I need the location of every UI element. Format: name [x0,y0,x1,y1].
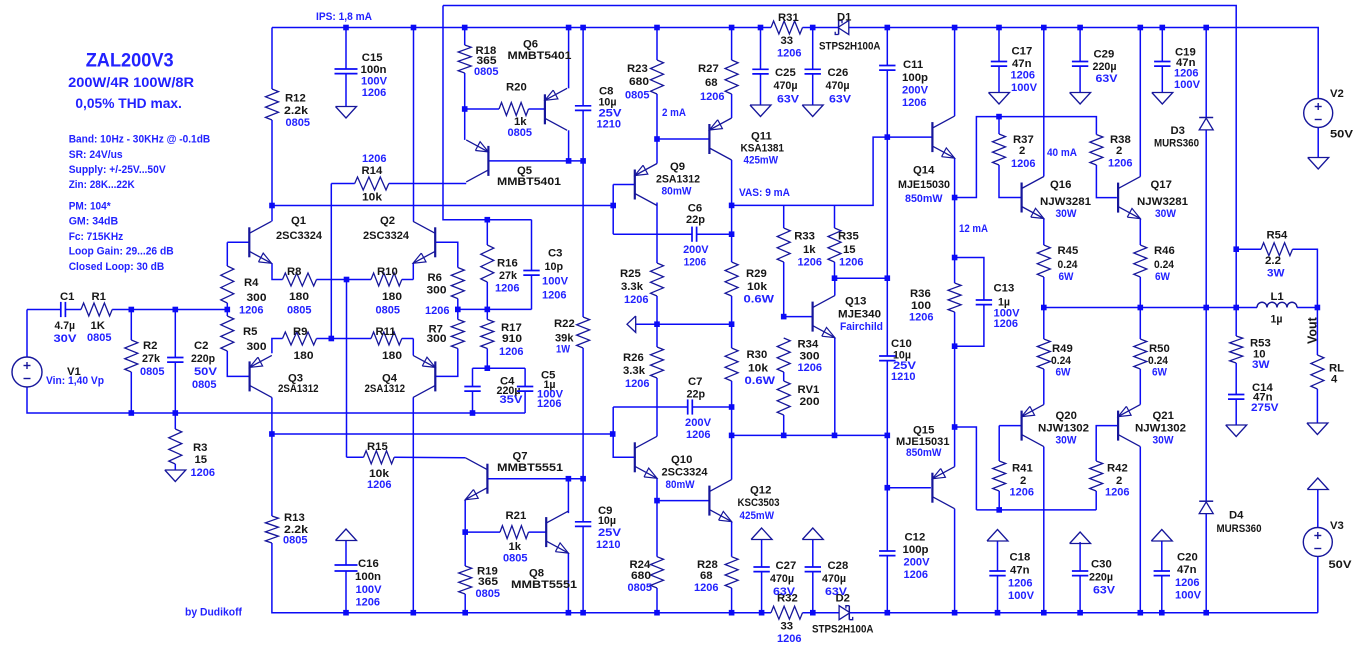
svg-text:1206: 1206 [798,362,823,374]
wire [657,478,709,500]
wire [784,316,813,318]
junction [654,610,660,616]
svg-text:910: 910 [502,333,522,345]
transistor Q6 [508,39,572,131]
wire [457,309,459,319]
svg-text:1k: 1k [803,244,816,256]
wire [886,28,888,66]
svg-text:33: 33 [781,621,794,633]
svg-text:Q12: Q12 [750,485,771,497]
resistor R3 [169,429,215,479]
svg-text:100V: 100V [1175,590,1201,602]
svg-text:Q13: Q13 [845,296,866,308]
ground [336,529,357,541]
resistor R23 [625,60,664,102]
resistor R22 [554,317,590,356]
svg-text:10µ: 10µ [598,515,616,527]
wire [524,391,526,413]
svg-text:SR: 24V/us: SR: 24V/us [69,149,123,161]
svg-text:2: 2 [1116,475,1122,487]
capacitor C20 [1154,552,1202,602]
svg-text:10k: 10k [362,192,383,204]
wire [999,165,1022,198]
wire [345,28,347,70]
resistor R54 [1261,230,1293,280]
svg-text:0805: 0805 [628,582,653,594]
svg-text:C6: C6 [688,202,702,214]
ground [1152,93,1173,105]
wire [731,205,733,262]
ground [1226,425,1247,437]
wire [1205,28,1207,118]
svg-text:0.24: 0.24 [1154,259,1175,271]
junction [885,134,891,140]
resistor R32 [771,593,803,646]
ground [1308,158,1329,170]
junction [329,336,335,342]
svg-text:180: 180 [294,350,314,362]
svg-text:1206: 1206 [902,97,927,109]
svg-text:0805: 0805 [140,366,165,378]
wire [486,309,488,319]
junction [654,25,660,31]
wire [998,117,1000,134]
junction [269,431,275,437]
wire [457,299,459,310]
svg-text:R3: R3 [193,442,207,454]
svg-text:by Dudikoff: by Dudikoff [185,607,242,619]
resistor R12 [266,89,311,129]
junction [654,498,660,504]
svg-text:NJW3281: NJW3281 [1040,196,1091,208]
svg-text:22p: 22p [686,214,705,226]
svg-text:MMBT5551: MMBT5551 [511,579,577,591]
wire [486,349,488,369]
svg-text:1206: 1206 [1108,158,1133,170]
wire [999,425,1021,427]
svg-text:C18: C18 [1010,552,1031,564]
svg-text:63V: 63V [829,94,851,106]
svg-text:D3: D3 [1171,125,1185,137]
wire [345,541,347,565]
resistor R20 [499,82,532,140]
svg-text:Q16: Q16 [1050,179,1071,191]
junction [654,321,660,327]
svg-text:220µ: 220µ [1089,572,1113,584]
svg-text:2SA1312: 2SA1312 [656,173,700,185]
svg-text:0805: 0805 [286,117,311,129]
svg-text:ZAL200V3: ZAL200V3 [86,50,174,72]
svg-text:R14: R14 [362,165,383,177]
svg-text:63V: 63V [1096,73,1118,85]
wire [472,391,474,413]
wire [465,531,500,533]
svg-text:2SC3324: 2SC3324 [662,467,709,479]
svg-text:2SC3324: 2SC3324 [276,230,323,242]
svg-text:180: 180 [382,350,402,362]
svg-text:50V: 50V [194,366,218,378]
wire [697,233,732,235]
svg-text:100p: 100p [903,544,929,556]
svg-text:C25: C25 [775,67,796,79]
wire [1139,369,1141,405]
svg-text:GM: 34dB: GM: 34dB [69,216,119,228]
svg-text:1206: 1206 [362,153,387,165]
svg-text:Q17: Q17 [1151,179,1172,191]
svg-text:680: 680 [631,570,651,582]
junction [952,255,958,261]
junction [1041,305,1047,311]
wire [1235,363,1237,395]
svg-text:C17: C17 [1012,46,1033,58]
wire [1043,308,1045,340]
svg-text:50V: 50V [1330,129,1354,141]
wire [1297,307,1317,309]
svg-text:Q8: Q8 [529,568,544,580]
wire [812,540,814,567]
svg-text:220p: 220p [191,353,215,365]
svg-text:300: 300 [247,341,267,353]
wire [1161,28,1163,62]
svg-text:0805: 0805 [192,379,217,391]
wire [955,117,1097,198]
svg-text:25V: 25V [598,527,622,539]
resistor R13 [265,512,308,547]
svg-text:1206: 1206 [686,429,711,441]
wire [955,258,984,301]
wire [998,28,1000,62]
wire [271,397,273,434]
junction [885,25,891,31]
transistor Q17 [1118,177,1188,220]
junction [759,610,765,616]
svg-text:R36: R36 [910,288,931,300]
svg-text:R50: R50 [1149,343,1170,355]
wire [443,6,1236,308]
ground [165,470,186,482]
wire [760,74,762,105]
svg-text:C29: C29 [1094,49,1115,61]
ground [336,107,357,119]
svg-text:MJE15030: MJE15030 [898,179,950,191]
wire [465,108,499,110]
wire [174,310,176,358]
wire [472,368,474,386]
wire [130,310,132,341]
transistor Q21 [1118,405,1186,447]
ground [750,105,771,117]
junction [952,424,958,430]
wire [998,491,1000,510]
resistor R14 [355,153,389,204]
svg-text:2SC3324: 2SC3324 [363,230,410,242]
svg-text:0805: 0805 [476,588,501,600]
junction [996,114,1002,120]
ground [1070,93,1091,105]
voltage source V2 [1304,88,1354,141]
wire [998,66,1000,92]
svg-text:R26: R26 [623,352,644,364]
junction [832,275,838,281]
junction [729,231,735,237]
junction [729,433,735,439]
wire [464,500,466,532]
wire [524,368,526,386]
svg-text:63V: 63V [1093,585,1115,597]
svg-text:R20: R20 [506,82,527,94]
wire [849,28,1318,99]
svg-text:100V: 100V [1008,590,1034,602]
svg-text:470µ: 470µ [826,80,850,92]
svg-text:0.24: 0.24 [1148,355,1169,367]
wire [402,279,414,281]
wire [272,433,613,435]
wire [413,28,415,222]
wire [954,427,956,467]
wire [954,312,956,427]
wire [1205,130,1207,501]
svg-text:2: 2 [1020,475,1026,487]
junction [781,314,787,320]
resistor R34 [777,338,822,374]
svg-text:1K: 1K [91,320,106,332]
wire [1043,277,1045,308]
wire [1043,447,1045,613]
junction [810,610,816,616]
svg-text:0805: 0805 [87,332,112,344]
wire [1235,399,1237,425]
svg-text:R42: R42 [1107,463,1128,475]
svg-text:0.6W: 0.6W [745,375,776,387]
svg-text:1206: 1206 [1175,577,1200,589]
transistor Q8 [511,511,577,591]
svg-text:R31: R31 [778,12,799,24]
svg-text:6W: 6W [1059,271,1074,283]
junction [952,25,958,31]
svg-text:100p: 100p [902,72,928,84]
svg-text:4: 4 [1331,374,1338,386]
wire [331,183,354,185]
resistor R4 [221,266,267,317]
svg-text:NJW3281: NJW3281 [1137,196,1188,208]
wire [1096,165,1117,198]
svg-text:1206: 1206 [499,346,524,358]
wire [227,241,249,243]
wire [345,74,347,107]
svg-text:15: 15 [843,244,856,256]
resistor R49 [1037,339,1072,379]
svg-text:Q6: Q6 [523,39,538,51]
resistor R11 [371,326,402,362]
wire [568,28,570,89]
svg-text:Fairchild: Fairchild [840,321,883,333]
ground [802,105,823,117]
junction [580,25,586,31]
svg-text:0.24: 0.24 [1051,355,1072,367]
wire [65,309,81,311]
wire [783,262,785,317]
wire [955,427,977,510]
wire [1079,28,1081,62]
svg-text:850mW: 850mW [905,193,943,205]
junction [1159,610,1165,616]
svg-text:KSC3503: KSC3503 [738,497,780,509]
capacitor C10 [879,338,916,383]
wire [1139,219,1141,245]
capacitor C26 [805,67,852,106]
junction [885,485,891,491]
svg-text:1206: 1206 [1011,158,1036,170]
wire [272,339,283,354]
svg-text:R1: R1 [92,291,106,303]
svg-text:R35: R35 [838,231,859,243]
svg-text:NJW1302: NJW1302 [1038,423,1089,435]
resistor R19 [459,566,500,601]
svg-text:1206: 1206 [537,398,562,410]
svg-text:1206: 1206 [1174,68,1199,80]
wire [412,397,414,612]
resistor R16 [481,245,520,295]
svg-text:C13: C13 [994,283,1015,295]
svg-text:68: 68 [705,77,718,89]
wire [954,509,956,613]
svg-text:R34: R34 [798,339,819,351]
wire [488,160,583,162]
svg-text:10p: 10p [545,261,564,273]
svg-text:35V: 35V [500,394,524,406]
junction [455,307,461,313]
svg-text:R15: R15 [367,441,388,453]
svg-text:47n: 47n [1177,564,1197,576]
svg-text:Q11: Q11 [751,131,772,143]
svg-text:C26: C26 [828,67,849,79]
junction [758,25,764,31]
svg-text:Q1: Q1 [291,215,306,227]
svg-text:2: 2 [1019,145,1025,157]
wire [761,540,763,567]
wire [1079,66,1081,92]
wire [402,338,414,340]
svg-text:MMBT5401: MMBT5401 [497,176,561,188]
svg-text:30V: 30V [54,333,78,345]
svg-text:470µ: 470µ [770,573,794,585]
wire [954,198,956,284]
svg-text:0,05% THD max.: 0,05% THD max. [75,95,181,111]
svg-text:L1: L1 [1271,291,1284,303]
wire [458,308,532,310]
svg-text:200V: 200V [685,417,711,429]
svg-text:425mW: 425mW [744,155,779,167]
svg-text:NJW1302: NJW1302 [1135,423,1186,435]
wire [1317,490,1319,528]
junction [729,404,735,410]
wire [732,137,933,205]
svg-text:C16: C16 [358,558,379,570]
svg-text:30W: 30W [1155,208,1176,220]
svg-text:R27: R27 [698,63,719,75]
wire [529,531,547,533]
resistor R10 [371,266,402,317]
wire [1236,248,1261,250]
svg-text:680: 680 [629,76,649,88]
wire [27,387,473,414]
svg-text:1206: 1206 [1008,578,1033,590]
svg-text:2SA1312: 2SA1312 [365,383,406,395]
wire [1293,249,1318,307]
svg-text:100V: 100V [361,76,387,88]
wire [812,28,814,70]
svg-text:1206: 1206 [1011,70,1036,82]
wire [731,296,733,348]
svg-text:300: 300 [800,351,820,363]
wire [174,413,176,429]
svg-text:300: 300 [427,333,447,345]
svg-text:MJE340: MJE340 [838,309,881,321]
wire [582,348,584,479]
resistor R36 [909,283,961,324]
junction [654,136,660,142]
capacitor C11 [879,59,928,109]
wire [783,415,785,435]
svg-text:R4: R4 [244,277,259,289]
svg-text:10k: 10k [748,363,769,375]
svg-text:R21: R21 [506,510,527,522]
svg-text:27k: 27k [142,353,161,365]
svg-text:33: 33 [781,35,794,47]
svg-text:1210: 1210 [891,371,916,383]
svg-text:R30: R30 [747,349,768,361]
svg-text:1206: 1206 [700,91,725,103]
svg-text:C27: C27 [776,560,797,572]
wire [486,282,488,309]
junction [1138,610,1144,616]
wire [834,205,836,228]
svg-text:200V: 200V [902,85,928,97]
junction [610,203,616,209]
ground [1151,530,1172,542]
svg-text:40 mA: 40 mA [1047,147,1077,159]
wire [656,139,658,164]
svg-text:D4: D4 [1229,510,1244,522]
wire [272,27,771,29]
voltage source V3 [1303,520,1352,571]
svg-text:Q21: Q21 [1153,410,1174,422]
wire [435,349,458,377]
resistor R17 [481,319,524,358]
wire [1316,389,1318,423]
diode D1 [819,12,881,53]
svg-text:0805: 0805 [376,305,401,317]
transistor Q7 [465,451,563,500]
svg-text:R33: R33 [794,231,815,243]
junction [470,410,476,416]
transistor Q4 [365,355,436,397]
svg-text:R5: R5 [243,326,257,338]
resistor R5 [221,316,267,353]
svg-text:R25: R25 [620,268,641,280]
junction [1160,25,1166,31]
wire [783,205,785,228]
wire [731,160,733,205]
transistor Q13 [813,296,883,338]
svg-text:1206: 1206 [356,597,381,609]
junction [343,610,349,616]
wire [317,279,372,281]
svg-text:1210: 1210 [596,539,621,551]
svg-text:1k: 1k [509,541,522,553]
svg-text:365: 365 [478,576,498,588]
wire [1079,576,1081,613]
